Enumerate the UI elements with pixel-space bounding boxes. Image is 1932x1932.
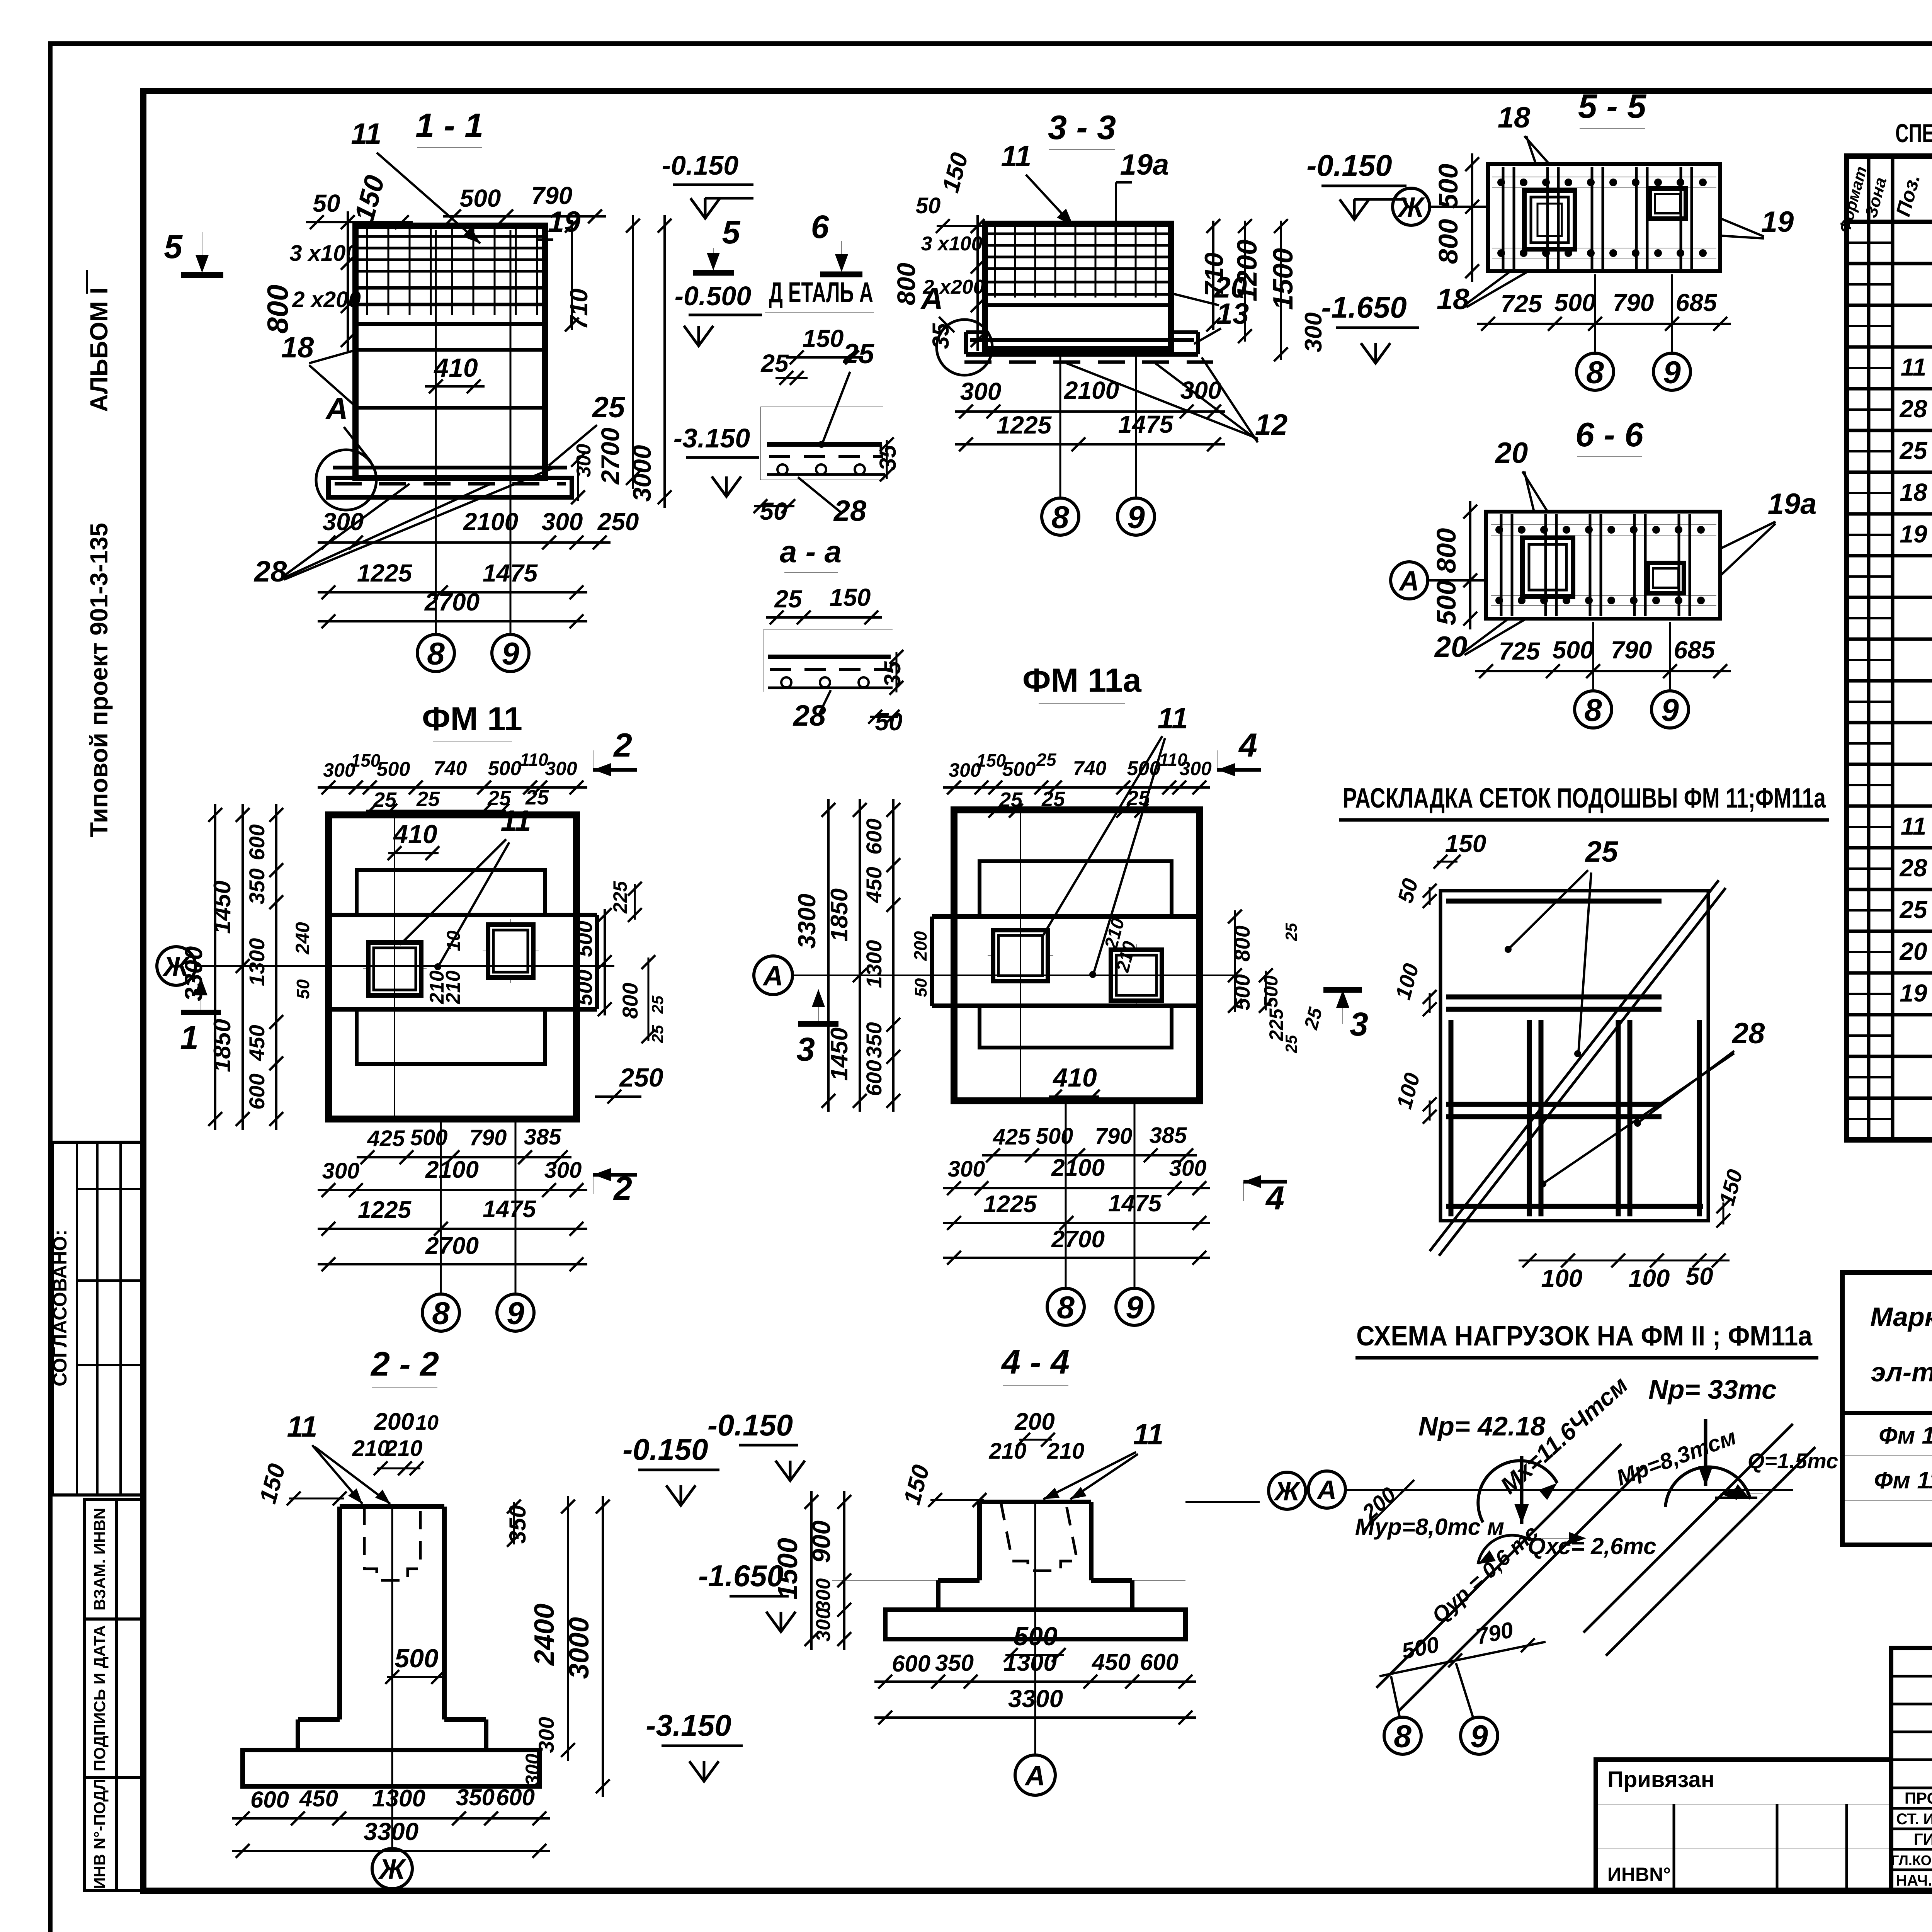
section 6-6 embed plate left: [1522, 538, 1573, 597]
svg-text:1475: 1475: [1118, 410, 1174, 438]
svg-text:25: 25: [373, 788, 397, 811]
load scheme axis circles: [1269, 1472, 1306, 1509]
section 6-6 circle 9: [1651, 691, 1689, 728]
load scheme moment M2: [1665, 1467, 1750, 1507]
section 6-6 axis circle А: [1391, 562, 1428, 599]
section 3-3 body outline: [985, 224, 1171, 349]
svg-text:9: 9: [507, 1296, 524, 1331]
plan FM11 section mark 1: [201, 978, 201, 1012]
svg-text:350: 350: [862, 1022, 886, 1058]
svg-text:25: 25: [592, 391, 626, 424]
section 1-1 column outline: [355, 226, 545, 478]
svg-text:8: 8: [1051, 500, 1069, 535]
svg-text:3 x100: 3 x100: [921, 233, 982, 255]
plan FM11 left dims 600 350 1300 450 600: [275, 804, 277, 1130]
svg-text:410: 410: [433, 353, 478, 383]
svg-text:900: 900: [807, 1520, 835, 1563]
svg-text:28: 28: [1899, 395, 1927, 423]
steel table grid: [1842, 1272, 1932, 1545]
section 2-2 footing slab: [243, 1750, 539, 1786]
signature table outline: [1891, 1648, 1932, 1891]
svg-text:3: 3: [1350, 1006, 1368, 1043]
margin box ВЗАМ. ИНВ N: [84, 1499, 117, 1619]
svg-text:790: 790: [469, 1125, 507, 1150]
svg-text:20: 20: [1434, 631, 1468, 663]
svg-text:25: 25: [1585, 835, 1619, 868]
svg-text:740: 740: [434, 757, 467, 780]
section 1-1 left dims: [306, 221, 413, 223]
section 1-1 axis circle 8: [417, 634, 454, 672]
section 3-3 axis guides: [1060, 352, 1061, 497]
section 3-3 footing slab: [966, 330, 985, 334]
svg-text:19: 19: [1900, 520, 1927, 548]
svg-text:210: 210: [385, 1436, 423, 1461]
section 6-6 outline: [1486, 512, 1720, 619]
section 6-6 left dims 800 500: [1469, 501, 1471, 629]
plan FM11 step rect top: [357, 870, 545, 915]
svg-text:11: 11: [351, 117, 382, 150]
svg-text:-0.150: -0.150: [622, 1432, 708, 1466]
svg-text:ФМ 11: ФМ 11: [422, 701, 522, 738]
svg-text:600: 600: [892, 1651, 930, 1677]
svg-text:3300: 3300: [364, 1818, 418, 1845]
load scheme force N2: [1704, 1419, 1708, 1486]
svg-text:600: 600: [245, 1073, 269, 1109]
section 2-2 bottom dims 600 450 1300 350 600: [232, 1817, 550, 1820]
svg-text:28: 28: [1899, 854, 1927, 882]
plan FM11a circle 9: [1116, 1288, 1153, 1325]
section 3-3 bottom dim chain 300 2100 300: [955, 410, 1225, 413]
svg-text:-0.500: -0.500: [675, 281, 752, 311]
svg-text:800: 800: [262, 285, 294, 334]
plan FM11a circle 8: [1047, 1288, 1084, 1325]
section 1-1 bottom dim 2700: [318, 620, 587, 622]
load scheme circle 9: [1461, 1717, 1498, 1754]
mesh layout diagonal: [1430, 880, 1719, 1251]
section 4-4 axis circle А: [1034, 1642, 1036, 1754]
svg-text:9: 9: [502, 636, 519, 672]
svg-text:8: 8: [1394, 1719, 1412, 1754]
plan FM11a anchor plate right: [1111, 950, 1162, 1001]
svg-text:28: 28: [253, 555, 287, 588]
svg-text:1300: 1300: [1003, 1650, 1057, 1676]
plan FM11 left dims 1450 1850: [241, 804, 244, 1130]
svg-text:1: 1: [180, 1019, 199, 1056]
section 1-1 axis guides: [435, 230, 437, 633]
svg-text:10: 10: [415, 1411, 439, 1434]
svg-text:СХЕМА НАГРУЗОК НА ФМ II ;: СХЕМА НАГРУЗОК НА ФМ II ; ФМ11а: [1356, 1321, 1813, 1352]
svg-text:11: 11: [1901, 812, 1926, 840]
plan FM11a left dims 1850 1450: [859, 799, 861, 1112]
svg-text:500: 500: [488, 757, 522, 780]
svg-text:Привязан: Привязан: [1607, 1767, 1714, 1792]
plan FM11a middle band: [932, 914, 1199, 919]
svg-text:800: 800: [618, 983, 642, 1019]
svg-text:8: 8: [432, 1296, 450, 1331]
mesh layout bottom dims 100 100 50: [1519, 1260, 1730, 1262]
svg-text:800: 800: [892, 263, 920, 305]
mesh layout section mark 3: [1342, 990, 1343, 1024]
section 5-5 left dims 500 800: [1471, 153, 1473, 282]
svg-text:-0.150: -0.150: [662, 150, 739, 180]
svg-text:Марка: Марка: [1870, 1302, 1932, 1332]
svg-text:28: 28: [1731, 1017, 1765, 1050]
svg-text:19: 19: [1900, 979, 1927, 1007]
svg-text:1300: 1300: [245, 938, 269, 986]
load scheme moment Mx: [1478, 1461, 1557, 1522]
svg-text:50: 50: [1685, 1262, 1713, 1290]
svg-text:25: 25: [1899, 437, 1928, 464]
svg-text:20: 20: [1495, 437, 1528, 469]
svg-text:450: 450: [299, 1786, 338, 1811]
load scheme rail 1: [1376, 1444, 1621, 1688]
plan FM11a axis circle А: [754, 956, 793, 995]
svg-text:4 - 4: 4 - 4: [1001, 1343, 1070, 1381]
svg-text:200: 200: [1014, 1408, 1054, 1435]
svg-text:685: 685: [1674, 636, 1716, 664]
svg-text:2400: 2400: [529, 1604, 560, 1666]
svg-text:11: 11: [501, 804, 531, 837]
svg-text:500: 500: [1553, 636, 1594, 664]
plan FM11 dim 410: [388, 852, 439, 854]
plan FM11a bottom dims 300 2100 300: [943, 1187, 1210, 1189]
svg-text:2700: 2700: [425, 1233, 479, 1259]
svg-text:790: 790: [1613, 289, 1654, 316]
svg-text:Д ЕТАЛЬ А: Д ЕТАЛЬ А: [769, 276, 873, 308]
svg-text:ИНВ N°-ПОДЛ: ИНВ N°-ПОДЛ: [90, 1779, 109, 1889]
section 4-4 bottom dims 600 350 1300 450 600: [874, 1680, 1196, 1683]
svg-text:790: 790: [531, 182, 573, 209]
svg-text:210: 210: [1047, 1439, 1085, 1464]
plan FM11 left dim 3300: [214, 804, 216, 1130]
svg-text:18: 18: [1498, 101, 1531, 134]
plan FM11a left dim 3300: [827, 799, 830, 1112]
svg-text:110: 110: [520, 750, 548, 770]
svg-text:500: 500: [460, 184, 501, 212]
svg-text:300: 300: [948, 1156, 985, 1182]
plan FM11a bottom dims 425 500 790 385: [982, 1154, 1197, 1156]
svg-text:11: 11: [1901, 353, 1926, 381]
section 3-3 detail circle A: [937, 320, 992, 375]
svg-text:3000: 3000: [628, 445, 656, 502]
section 5-5 bottom dims 725 500 790 685: [1477, 323, 1731, 325]
svg-text:ВЗАМ. ИНВN: ВЗАМ. ИНВN: [90, 1508, 109, 1611]
plan FM11a anchor plate left: [993, 930, 1048, 981]
section a-a dims: [766, 616, 882, 619]
section 3-3 axis circle 8: [1042, 498, 1079, 535]
svg-text:450: 450: [245, 1025, 269, 1061]
plan FM11 anchor plate right: [488, 925, 533, 978]
plan FM11 bottom dims 425 500 790 385: [357, 1156, 571, 1158]
plan FM11 circle 9: [497, 1294, 534, 1331]
section 2-2 column outline: [340, 1504, 444, 1509]
svg-text:725: 725: [1499, 637, 1541, 665]
svg-text:1500: 1500: [772, 1538, 803, 1600]
svg-text:3300: 3300: [180, 946, 207, 1001]
svg-text:АЛЬБОМ I: АЛЬБОМ I: [85, 287, 113, 412]
section 1-1 top rebar hatch: [359, 235, 542, 238]
svg-text:4: 4: [1238, 727, 1257, 764]
svg-text:300: 300: [1179, 758, 1212, 779]
load scheme rail 2: [1583, 1424, 1793, 1633]
section 1-1 bottom dim chain 300 2100 300 250: [318, 541, 611, 544]
plan FM11 bottom dims 1225 1475: [318, 1228, 587, 1230]
svg-text:8: 8: [1584, 693, 1602, 728]
svg-text:а - а: а - а: [780, 534, 842, 569]
svg-text:600: 600: [496, 1784, 535, 1810]
svg-text:Фм 11: Фм 11: [1879, 1422, 1932, 1449]
section 6-6 circle 8: [1575, 691, 1612, 728]
section 1-1 top dims 500 790: [443, 215, 606, 218]
svg-text:8: 8: [1057, 1290, 1075, 1325]
svg-text:Типовой проект 901-3-135: Типовой проект 901-3-135: [85, 523, 113, 837]
svg-text:19а: 19а: [1120, 148, 1169, 181]
plan FM11a axis lines: [793, 975, 1242, 976]
section 1-1 bottom mat 28: [333, 466, 567, 469]
svg-text:25: 25: [648, 1025, 667, 1043]
svg-text:25: 25: [842, 338, 874, 369]
plan FM11a section mark 3: [818, 989, 819, 1023]
svg-text:19: 19: [1761, 206, 1794, 238]
svg-text:Ж: Ж: [378, 1854, 406, 1885]
spec table grid: [1847, 156, 1932, 1140]
svg-text:100: 100: [1629, 1264, 1670, 1292]
svg-text:800: 800: [1230, 925, 1254, 961]
svg-text:500: 500: [410, 1125, 448, 1150]
svg-text:225: 225: [609, 881, 631, 914]
svg-text:300: 300: [545, 758, 577, 779]
svg-text:50: 50: [313, 189, 340, 217]
svg-text:300: 300: [1180, 376, 1222, 404]
svg-text:600: 600: [862, 818, 886, 854]
svg-text:300: 300: [544, 1158, 582, 1183]
svg-text:-1.650: -1.650: [698, 1559, 784, 1593]
svg-text:2100: 2100: [425, 1156, 479, 1183]
svg-text:25: 25: [416, 787, 440, 811]
svg-text:ИНВN°: ИНВN°: [1607, 1864, 1671, 1885]
svg-text:25: 25: [760, 349, 789, 377]
svg-text:50: 50: [912, 978, 930, 997]
svg-text:9: 9: [1126, 1290, 1143, 1325]
section 1-1 right dims 2700 3000: [632, 215, 634, 489]
svg-text:790: 790: [1095, 1124, 1133, 1149]
svg-text:18: 18: [1900, 478, 1927, 506]
plan FM11a axis guides: [1065, 1104, 1067, 1287]
svg-text:1850: 1850: [209, 1019, 236, 1072]
svg-text:11: 11: [1158, 702, 1188, 735]
svg-text:35: 35: [928, 323, 954, 349]
svg-text:300: 300: [542, 508, 583, 536]
plan FM11a step rect top: [980, 861, 1172, 917]
svg-text:500: 500: [1230, 974, 1254, 1010]
section 4-4 bottom dim 3300: [874, 1716, 1196, 1719]
section 3-3 top rebar hatch: [988, 233, 1168, 235]
section 3-3 bottom dim chain 1225 1475: [955, 443, 1225, 446]
section 6-6 rebar grid: [1491, 524, 1716, 525]
svg-text:500: 500: [395, 1644, 439, 1673]
svg-text:2 - 2: 2 - 2: [370, 1345, 439, 1383]
svg-text:600: 600: [1140, 1649, 1179, 1675]
svg-text:2700: 2700: [596, 427, 624, 485]
svg-text:А: А: [762, 961, 783, 992]
section 1-1 mesh lines 18: [356, 348, 544, 352]
svg-text:210: 210: [352, 1436, 390, 1461]
svg-text:500: 500: [572, 921, 597, 957]
plan FM11 right dims 225 500 500 800 25: [604, 909, 606, 1015]
svg-text:А: А: [1024, 1760, 1045, 1791]
svg-text:-1.650: -1.650: [1321, 290, 1406, 324]
plan FM11 axis circle Ж: [157, 947, 196, 985]
plan FM11a right dims 800 500 225 25: [1234, 910, 1236, 1012]
svg-text:410: 410: [1052, 1063, 1097, 1092]
svg-text:-3.150: -3.150: [673, 423, 750, 453]
plan FM11a bottom dims 1225 1475: [943, 1222, 1210, 1224]
svg-text:-0.150: -0.150: [1306, 148, 1392, 182]
svg-text:450: 450: [1092, 1649, 1131, 1675]
svg-text:2100: 2100: [1051, 1155, 1105, 1181]
svg-text:740: 740: [1073, 757, 1107, 780]
margin approval grid: [52, 1142, 144, 1495]
section 5-5 axis circle Ж: [1393, 188, 1430, 225]
svg-text:1450: 1450: [209, 881, 236, 934]
section 5-5 circle 8: [1577, 353, 1614, 390]
svg-text:18: 18: [281, 331, 314, 364]
svg-text:350: 350: [935, 1650, 974, 1676]
svg-text:3 - 3: 3 - 3: [1048, 108, 1116, 146]
svg-text:600: 600: [245, 824, 269, 860]
svg-text:350: 350: [456, 1784, 495, 1810]
svg-text:1475: 1475: [483, 1196, 536, 1223]
load scheme circle 8: [1384, 1717, 1421, 1754]
section 5-5 embed plate left: [1524, 190, 1575, 249]
svg-text:5 - 5: 5 - 5: [1578, 87, 1646, 125]
svg-text:300: 300: [1169, 1156, 1207, 1181]
svg-text:9: 9: [1127, 500, 1145, 535]
svg-text:300: 300: [960, 378, 1002, 405]
svg-text:25: 25: [774, 585, 803, 613]
svg-text:10: 10: [444, 930, 464, 951]
svg-text:Qхс= 2,6тс: Qхс= 2,6тс: [1528, 1533, 1656, 1559]
section 1-1 detail circle A: [316, 450, 376, 510]
section 1-1 footing slab: [328, 478, 572, 497]
plan FM11 bottom dims 300 2100 300: [318, 1189, 587, 1191]
svg-text:НАЧ.ОТД: НАЧ.ОТД: [1896, 1872, 1932, 1889]
plan FM11a dim 410: [1049, 1095, 1099, 1098]
svg-text:Q=1.5тс: Q=1.5тс: [1748, 1449, 1838, 1473]
load scheme diagonal dims 500 790: [1379, 1642, 1546, 1676]
svg-text:28: 28: [793, 699, 826, 732]
svg-text:1225: 1225: [997, 411, 1052, 439]
svg-text:600: 600: [250, 1787, 289, 1813]
svg-text:100: 100: [1541, 1264, 1583, 1292]
svg-text:200: 200: [374, 1408, 414, 1435]
svg-text:18: 18: [1437, 283, 1469, 316]
svg-text:9: 9: [1663, 355, 1681, 390]
svg-text:9: 9: [1661, 693, 1679, 728]
section 4-4 middle step: [938, 1578, 980, 1583]
svg-text:150: 150: [1445, 830, 1486, 857]
svg-text:300: 300: [522, 1753, 543, 1786]
svg-text:5: 5: [722, 214, 741, 250]
section 3-3 axis circle 9: [1117, 498, 1155, 535]
svg-text:50: 50: [875, 708, 902, 736]
svg-text:СТ. ИНЖ.: СТ. ИНЖ.: [1896, 1811, 1932, 1828]
bind block Привязан: [1596, 1760, 1891, 1891]
svg-text:500: 500: [1431, 580, 1461, 626]
svg-text:240: 240: [292, 922, 313, 955]
svg-text:2700: 2700: [1051, 1226, 1105, 1253]
svg-text:800: 800: [1433, 219, 1463, 264]
svg-text:6 - 6: 6 - 6: [1575, 415, 1644, 454]
svg-text:19а: 19а: [1768, 488, 1817, 520]
svg-text:300: 300: [812, 1608, 835, 1642]
section 4-4 footing slab: [885, 1610, 1185, 1639]
plan FM11 top dim chain: [318, 786, 587, 789]
svg-text:710: 710: [565, 289, 593, 330]
svg-text:410: 410: [393, 820, 437, 849]
section 4-4 axis leader: [1185, 1501, 1260, 1503]
svg-text:500: 500: [1260, 975, 1282, 1008]
plan FM11 bottom dim 2700: [318, 1263, 587, 1265]
mesh layout vertical bars 28: [1449, 1020, 1454, 1216]
svg-text:20: 20: [1899, 937, 1927, 965]
svg-text:600: 600: [862, 1060, 886, 1096]
svg-text:300: 300: [323, 508, 364, 536]
svg-text:ПРОВ.: ПРОВ.: [1905, 1789, 1932, 1807]
svg-text:385: 385: [1150, 1123, 1187, 1148]
svg-text:350: 350: [505, 1505, 531, 1544]
svg-text:500: 500: [572, 969, 597, 1005]
svg-text:Nр= 42.18: Nр= 42.18: [1418, 1411, 1546, 1441]
svg-text:ГИП: ГИП: [1914, 1830, 1932, 1848]
svg-text:5: 5: [164, 228, 183, 265]
svg-text:6: 6: [811, 209, 830, 245]
mesh layout outline: [1440, 891, 1708, 1221]
section 4-4 anchor dashed: [1001, 1502, 1077, 1571]
plan FM11a step rect bottom: [980, 1006, 1172, 1048]
svg-text:150: 150: [803, 325, 844, 352]
plan FM11 footing outline: [328, 815, 577, 1119]
svg-text:25: 25: [1036, 750, 1057, 770]
svg-text:1300: 1300: [372, 1785, 425, 1812]
svg-text:1225: 1225: [357, 559, 413, 587]
detail A dims: [786, 356, 863, 359]
svg-text:1850: 1850: [826, 888, 853, 942]
svg-text:685: 685: [1676, 289, 1718, 316]
svg-text:385: 385: [524, 1124, 562, 1150]
svg-text:А: А: [1398, 566, 1419, 597]
section 6-6 axis guides: [1592, 622, 1594, 689]
svg-text:250: 250: [597, 508, 639, 536]
svg-text:25: 25: [1282, 923, 1300, 941]
svg-text:425: 425: [993, 1124, 1031, 1150]
section 1-1 bottom dim chain 1225 1475: [318, 591, 587, 594]
svg-text:1500: 1500: [1268, 248, 1299, 310]
svg-text:3300: 3300: [793, 894, 821, 949]
plan FM11 middle band: [328, 913, 597, 917]
svg-text:3000: 3000: [564, 1617, 595, 1679]
section 5-5 rebar grid: [1492, 177, 1716, 177]
svg-text:300: 300: [534, 1717, 558, 1753]
section 4-4 pedestal outline: [980, 1500, 1091, 1504]
svg-text:РАСКЛАДКА СЕТОК ПОДОШВЫ ФМ 11;: РАСКЛАДКА СЕТОК ПОДОШВЫ ФМ 11;ФМ11а: [1343, 783, 1826, 814]
load scheme axis line: [1345, 1489, 1793, 1491]
svg-text:2 x200: 2 x200: [292, 287, 361, 312]
svg-text:СПЕЦИФИКАЦИЯ ЭЛЕМЕНТОВ МОНОЛ: СПЕЦИФИКАЦИЯ ЭЛЕМЕНТОВ МОНОЛИТНОЙ КОНСТР…: [1895, 118, 1932, 148]
svg-text:1225: 1225: [358, 1197, 412, 1223]
section 6-6 embed plate right: [1648, 563, 1684, 593]
plan FM11a footing outline: [954, 810, 1199, 1101]
